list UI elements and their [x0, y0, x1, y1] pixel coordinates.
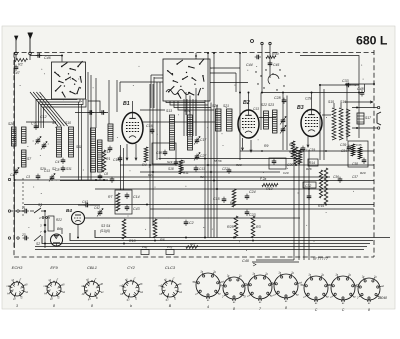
dial cord dashed: [22, 178, 24, 218]
junction: [149, 164, 151, 166]
trimmer C13c: [49, 174, 55, 182]
wire bus: [95, 230, 390, 238]
junction: [358, 92, 360, 94]
wire: [207, 53, 209, 238]
svg-text:C14: C14: [133, 195, 140, 199]
capacitor C10: [118, 156, 123, 162]
wire: [174, 101, 211, 108]
wire: [183, 99, 185, 136]
wire: [170, 101, 208, 105]
wire: [61, 56, 63, 62]
earth arrow: [28, 33, 33, 52]
svg-text:S14: S14: [184, 109, 190, 113]
tube B1 pin: [135, 144, 137, 160]
junction: [103, 179, 105, 181]
wire: [159, 82, 161, 160]
svg-text:8: 8: [233, 307, 235, 311]
resistor R4: [144, 147, 148, 162]
wire: [39, 99, 81, 128]
svg-text:C24: C24: [249, 190, 256, 194]
volume pot box: [48, 216, 54, 231]
svg-text:C48: C48: [357, 87, 364, 91]
switch box outer wire: [87, 72, 89, 180]
wire: [260, 93, 262, 131]
coil S22: [264, 111, 269, 129]
wire: [77, 225, 79, 239]
junction: [239, 92, 241, 94]
resistor R3: [251, 216, 255, 238]
wire: [156, 82, 158, 160]
wire grid line: [143, 121, 215, 123]
svg-text:ECH3: ECH3: [12, 265, 23, 270]
wire: [345, 101, 372, 103]
pilot lamp P7: [166, 250, 174, 255]
junction: [216, 188, 218, 190]
wire: [123, 148, 125, 190]
svg-text:C45: C45: [273, 63, 279, 67]
tube socket CBL1: [81, 278, 104, 301]
wire: [81, 105, 83, 181]
terminal: [8, 237, 10, 239]
wire: [311, 93, 313, 111]
svg-text:S18: S18: [168, 167, 174, 171]
capacitor C7: [34, 124, 39, 130]
svg-text:b: b: [130, 304, 132, 308]
contact 4: [42, 217, 44, 219]
wire bus: [24, 204, 374, 206]
svg-text:B6: B6: [57, 227, 61, 231]
capacitor C23: [245, 210, 250, 216]
switch contact dot: [260, 75, 261, 76]
terminal: [261, 42, 263, 44]
wire: [26, 121, 56, 123]
trimmer C42: [97, 209, 103, 217]
junction: [207, 52, 209, 54]
tuning indicator tube B6: [51, 234, 63, 246]
svg-text:2-: 2-: [221, 297, 224, 299]
wavy dial cord: [166, 90, 190, 95]
svg-text:C34: C34: [341, 149, 347, 153]
resistor R5: [232, 189, 236, 207]
capacitor C43: [125, 205, 130, 211]
switch contact dot: [257, 83, 258, 84]
wire: [252, 261, 299, 263]
svg-text:S22 S23: S22 S23: [261, 103, 274, 107]
wire: [259, 117, 276, 119]
tube socket rear view: [354, 276, 384, 304]
wire: [36, 92, 64, 126]
svg-text:C47: C47: [13, 71, 21, 75]
capacitor C22: [227, 168, 232, 174]
svg-text:C11: C11: [104, 150, 110, 154]
junction: [261, 92, 263, 94]
wire: [149, 84, 151, 238]
tube socket rear view: [327, 274, 359, 304]
trimmer C17: [194, 137, 200, 145]
resistor R16: [324, 168, 328, 204]
wire: [240, 150, 374, 152]
coil S4b: [108, 124, 113, 141]
svg-text:C13: C13: [253, 107, 259, 111]
svg-text:R23: R23: [236, 163, 242, 167]
capacitor C8: [61, 166, 66, 172]
wire: [293, 150, 295, 260]
tube socket rear view: [300, 274, 332, 304]
junction: [252, 240, 254, 242]
tube B1 pin: [126, 144, 128, 160]
junction: [319, 84, 321, 86]
junction: [213, 180, 215, 182]
wire: [195, 99, 197, 136]
wire: [340, 103, 342, 108]
wire: [95, 78, 97, 128]
svg-text:S28: S28: [8, 122, 14, 126]
capacitor C14: [125, 193, 130, 199]
capacitor C38: [362, 158, 367, 164]
chassis bus left: [14, 57, 16, 248]
wire arrow: [370, 101, 373, 103]
wire: [213, 53, 215, 238]
capacitor C30: [272, 159, 277, 165]
switch S2: [34, 235, 41, 241]
trimmer C27: [194, 153, 200, 161]
svg-text:S3 S4: S3 S4: [101, 224, 110, 228]
svg-text:8: 8: [91, 304, 93, 308]
svg-text:R21: R21: [148, 173, 154, 177]
svg-text:25048: 25048: [377, 296, 387, 300]
switch contact dot: [263, 87, 264, 88]
svg-text:C35: C35: [356, 143, 362, 147]
antenna terminal: [15, 52, 18, 55]
capacitor C46: [36, 53, 42, 58]
wire: [108, 80, 110, 124]
tube B3: [301, 110, 322, 137]
coil S7: [22, 150, 27, 167]
capacitor C19b: [174, 160, 179, 166]
svg-text:S31: S31: [66, 167, 72, 171]
wire bus: [60, 180, 374, 182]
svg-text:CY2: CY2: [127, 265, 136, 270]
svg-text:P7g: P7g: [167, 245, 173, 249]
capacitor C44: [255, 55, 261, 60]
trimmer C3: [13, 168, 19, 176]
terminal: [17, 210, 19, 212]
resistor R17: [319, 170, 322, 198]
junction: [346, 84, 348, 86]
transformer winding S16: [339, 108, 343, 140]
wire: [132, 101, 134, 113]
resistor R27: [186, 246, 198, 249]
svg-text:S13: S13: [166, 109, 172, 113]
tube socket rear view: [219, 275, 249, 303]
wire: [192, 99, 194, 136]
switch contact dot: [284, 75, 285, 76]
junction: [154, 240, 156, 242]
junction: [207, 164, 209, 166]
svg-text:C18: C18: [156, 151, 162, 155]
switch contact dot: [276, 89, 277, 90]
wire: [308, 188, 310, 194]
svg-text:680 L: 680 L: [356, 34, 388, 48]
junction: [356, 107, 358, 109]
resistor R6: [153, 219, 157, 238]
svg-text:C17: C17: [200, 138, 206, 142]
svg-text:8: 8: [53, 304, 55, 308]
wire bus: [15, 179, 109, 181]
terminal: [251, 40, 254, 43]
junction: [185, 237, 187, 239]
svg-text:R22: R22: [56, 218, 62, 222]
coil S14: [188, 115, 193, 150]
tube socket rear view: [192, 271, 224, 301]
wire: [195, 53, 197, 59]
svg-text:B4: B4: [66, 208, 72, 213]
capacitor C45: [268, 61, 273, 67]
resistor R29: [294, 147, 298, 164]
svg-text:3: 3: [16, 304, 18, 308]
svg-text:N°77777: N°77777: [313, 257, 329, 261]
terminal: [8, 178, 10, 180]
wire: [261, 45, 263, 92]
chassis dashed border top: [14, 52, 374, 54]
transformer winding S15: [332, 108, 336, 140]
small box R14: [308, 159, 318, 166]
svg-text:C15: C15: [213, 197, 220, 201]
junction: [14, 179, 16, 181]
trimmer C21: [280, 126, 286, 134]
wire: [19, 210, 24, 212]
wire: [352, 107, 377, 109]
wire: [333, 103, 335, 108]
svg-text:R14: R14: [309, 161, 315, 165]
svg-text:C16: C16: [146, 124, 153, 128]
tube socket rear view: [270, 272, 302, 302]
svg-text:C13: C13: [44, 169, 50, 173]
decoupling box: [115, 190, 132, 214]
svg-text:2f: 2f: [326, 297, 329, 299]
wire: [154, 77, 163, 79]
wire: [185, 92, 187, 115]
wire arrow: [253, 263, 256, 266]
resistor R10b: [262, 183, 278, 186]
svg-text:CLC3: CLC3: [165, 265, 176, 270]
tube socket CLC3: [159, 277, 183, 301]
tube B1: [122, 113, 143, 144]
wire: [152, 84, 154, 226]
wire: [11, 210, 17, 212]
svg-text:2-: 2-: [356, 298, 359, 300]
svg-text:2-: 2-: [329, 297, 332, 299]
svg-text:C46: C46: [44, 56, 51, 60]
capacitor C28: [282, 98, 287, 104]
wire: [210, 103, 212, 238]
junction: [213, 52, 215, 54]
wire: [78, 204, 86, 206]
wire: [30, 210, 34, 212]
svg-text:C38: C38: [352, 162, 358, 166]
svg-text:R30: R30: [272, 52, 279, 56]
trimmer C6: [41, 142, 47, 150]
wire capacitor row: [75, 112, 108, 114]
wire: [186, 99, 188, 136]
wire: [159, 158, 301, 160]
capacitor C18: [163, 150, 168, 156]
wire: [36, 99, 77, 128]
svg-text:8: 8: [285, 306, 287, 310]
resistor R13: [291, 141, 295, 157]
wire: [140, 171, 280, 173]
small network box: [269, 158, 286, 169]
svg-text:C37: C37: [352, 175, 358, 179]
wire: [84, 217, 300, 219]
tube socket EF9: [44, 278, 66, 300]
resistor R1: [102, 150, 106, 172]
contact 7: [44, 231, 46, 233]
wire: [151, 74, 163, 76]
wire: [210, 82, 248, 84]
svg-text:C29: C29: [305, 97, 311, 101]
wire: [61, 228, 63, 234]
coil S26: [98, 140, 103, 172]
svg-text:R20: R20: [360, 171, 366, 175]
capacitor C15: [222, 197, 227, 203]
junction: [204, 237, 206, 239]
wire: [216, 105, 218, 238]
resistor R30: [266, 56, 276, 59]
junction: [123, 243, 125, 245]
capacitor C19: [301, 146, 306, 152]
wire: [320, 84, 359, 86]
svg-text:S10: S10: [65, 121, 71, 125]
wire: [189, 96, 191, 116]
wire bus: [95, 188, 374, 190]
switch contact dot: [272, 73, 273, 74]
svg-text:⊢C19: ⊢C19: [306, 148, 315, 152]
capacitor C?: [23, 209, 29, 214]
svg-text:C10: C10: [113, 158, 119, 162]
wire: [153, 77, 155, 108]
svg-text:R1: R1: [106, 157, 110, 161]
wire bus: [35, 249, 364, 251]
wire: [282, 93, 284, 151]
svg-text:R11: R11: [183, 171, 189, 175]
svg-text:C39: C39: [340, 143, 346, 147]
wire: [116, 80, 118, 112]
wire: [44, 99, 87, 128]
svg-text:C28: C28: [274, 96, 281, 100]
svg-text:C44: C44: [246, 63, 253, 67]
wire: [88, 101, 100, 113]
svg-text:R9: R9: [264, 144, 268, 148]
svg-text:C29: C29: [283, 171, 289, 175]
svg-text:R25: R25: [227, 225, 234, 229]
svg-text:S17: S17: [365, 116, 371, 120]
junction: [248, 92, 250, 94]
svg-text:R27: R27: [190, 242, 196, 246]
wire: [345, 83, 374, 85]
junction: [210, 171, 212, 173]
wire: [210, 72, 236, 74]
switch contact dot: [265, 69, 266, 70]
svg-text:S11: S11: [76, 145, 82, 149]
IF filter box: [152, 143, 176, 164]
switch box outer wire: [90, 75, 92, 180]
capacitor C8c: [110, 177, 115, 183]
tube B3 pin: [307, 135, 309, 147]
wire: [364, 84, 366, 92]
wire: [140, 109, 165, 111]
terminal: [17, 237, 19, 239]
capacitor C4: [61, 158, 66, 164]
svg-text:2f: 2f: [353, 297, 356, 299]
contact 5: [46, 217, 48, 219]
tube socket rear view: [244, 273, 276, 303]
wire: [346, 85, 348, 141]
wire: [248, 93, 250, 111]
coil S21: [227, 109, 233, 131]
resistor R7: [116, 193, 120, 211]
noise: [20, 65, 364, 251]
resistor R19: [358, 147, 362, 159]
capacitor C16: [150, 128, 155, 134]
svg-text:C36: C36: [333, 175, 339, 179]
svg-text:55 56: 55 56: [214, 159, 222, 163]
svg-text:P6g: P6g: [142, 245, 148, 249]
wire output box top: [261, 92, 359, 94]
coil S13: [170, 115, 175, 150]
capacitor C36: [338, 177, 343, 183]
coil S9: [57, 127, 62, 157]
capacitor C13b: [194, 166, 199, 172]
svg-text:2-: 2-: [246, 296, 249, 298]
svg-text:2-: 2-: [272, 295, 275, 297]
wire: [41, 211, 45, 248]
coil S24: [91, 128, 96, 172]
svg-text:C2: C2: [189, 221, 194, 225]
svg-text:S7: S7: [27, 157, 31, 161]
svg-text:4: 4: [207, 305, 209, 309]
svg-text:S20: S20: [212, 104, 218, 108]
tube socket ECH3: [7, 278, 29, 300]
wire: [120, 145, 122, 190]
svg-text:C32: C32: [305, 184, 311, 188]
capacitor C39: [347, 145, 352, 151]
terminal: [269, 42, 271, 44]
svg-text:2f: 2f: [296, 295, 299, 297]
junction: [195, 55, 197, 57]
tone network box: [348, 141, 368, 167]
capacitor C8b: [98, 174, 103, 180]
pilot lamp P6: [141, 250, 149, 255]
coil S8: [22, 127, 27, 143]
tube B2 pin: [250, 140, 252, 152]
resistor R25: [234, 216, 238, 238]
wire bus: [150, 208, 374, 210]
svg-text:B3: B3: [297, 105, 304, 111]
switch S1: [34, 208, 41, 213]
junction: [146, 204, 148, 206]
tube B2: [238, 110, 259, 138]
svg-text:2-: 2-: [194, 294, 197, 296]
junction: [61, 55, 63, 57]
svg-text:R2: R2: [18, 63, 23, 67]
capacitor C3b: [36, 174, 41, 180]
wire: [256, 259, 294, 261]
wire: [29, 55, 31, 60]
svg-text:C33: C33: [342, 79, 349, 83]
wire bus: [42, 236, 370, 244]
capacitor C?: [23, 236, 29, 241]
